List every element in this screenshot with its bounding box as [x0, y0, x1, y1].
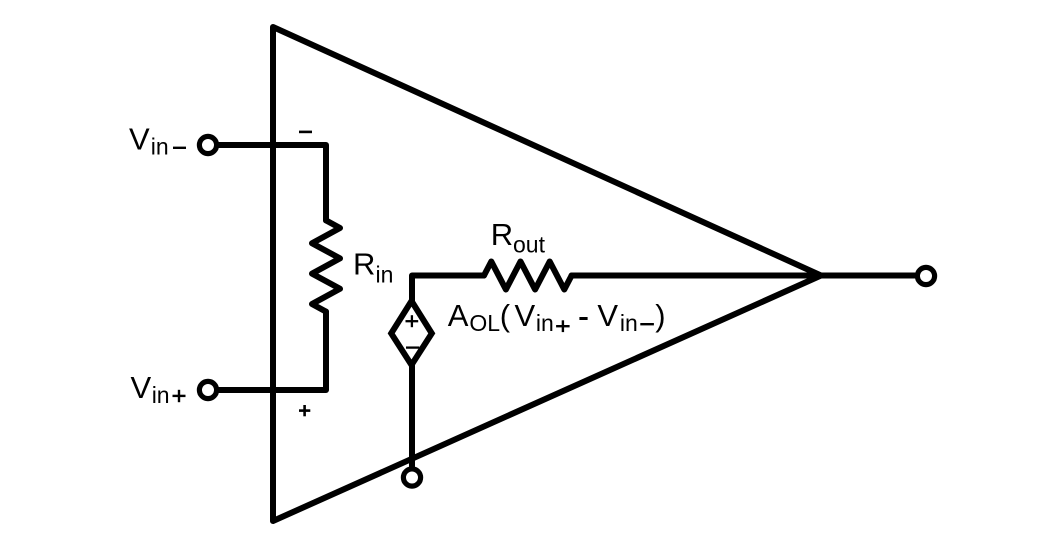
svg-text:in: in: [620, 310, 638, 336]
svg-text:V: V: [515, 298, 536, 333]
svg-text:in: in: [376, 262, 394, 288]
svg-text:A: A: [448, 298, 469, 333]
svg-text:V: V: [597, 298, 618, 333]
label R_in: [353, 247, 393, 288]
label R_out: [491, 217, 546, 258]
svg-text:): ): [655, 298, 665, 333]
terminal V_in+: [199, 381, 216, 398]
non-inverting input marker +: [299, 409, 310, 412]
svg-text:(: (: [500, 298, 511, 333]
svg-text:V: V: [131, 370, 152, 405]
terminal bottom node: [403, 469, 420, 486]
svg-text:V: V: [129, 122, 150, 157]
inverting input marker -: [299, 131, 312, 134]
label A_OL(V_in+ - V_in-): [448, 298, 666, 336]
terminal V_in-: [199, 136, 216, 153]
resistor R_in: [312, 220, 340, 311]
resistor R_out: [484, 262, 572, 290]
svg-text:OL: OL: [469, 310, 500, 336]
wire V_in- input to R_in top: [218, 145, 326, 220]
svg-text:R: R: [491, 217, 513, 252]
svg-text:R: R: [353, 247, 375, 282]
svg-text:out: out: [513, 231, 546, 257]
label V_in-: [129, 122, 186, 160]
terminal output: [917, 267, 934, 284]
wire diamond bottom to bottom node: [409, 365, 415, 467]
plus mark inside source: [406, 320, 419, 322]
svg-text:in: in: [536, 310, 554, 336]
svg-text:in: in: [151, 134, 169, 160]
svg-text:in: in: [152, 382, 170, 408]
wire diamond top to R_out: [412, 276, 484, 302]
minus mark inside source: [406, 346, 419, 348]
op-amp U1 triangle: [273, 27, 821, 521]
wire R_out to output terminal: [572, 273, 915, 279]
wire R_in bottom to V_in+ input: [218, 312, 326, 390]
label V_in+: [131, 370, 186, 408]
dependent source U2 diamond: [391, 301, 432, 365]
